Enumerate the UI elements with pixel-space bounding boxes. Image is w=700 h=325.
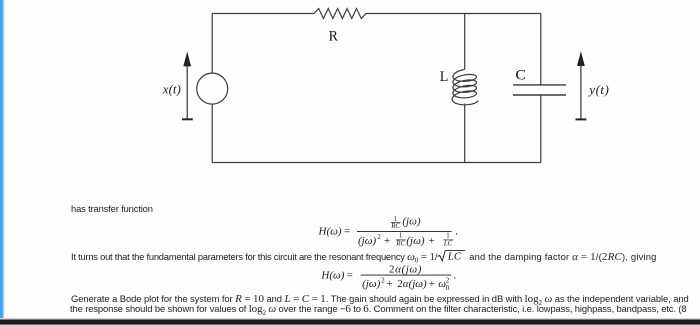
svg-text:(jω): (jω): [402, 216, 420, 228]
svg-text:=: =: [344, 225, 350, 237]
svg-text:.: .: [453, 270, 456, 282]
svg-text:+: +: [384, 235, 390, 247]
svg-text:RC: RC: [395, 241, 405, 248]
svg-text:2α(jω): 2α(jω): [389, 263, 422, 275]
svg-text:=: =: [347, 270, 353, 282]
svg-text:.: .: [455, 225, 458, 237]
svg-text:R: R: [329, 28, 339, 44]
svg-text:0: 0: [446, 285, 450, 292]
svg-text:+: +: [429, 278, 435, 290]
svg-text:2: 2: [381, 277, 385, 284]
svg-text:+: +: [386, 278, 392, 290]
svg-text:H(ω): H(ω): [318, 225, 342, 237]
svg-text:(jω): (jω): [358, 235, 376, 247]
svg-text:x(t): x(t): [162, 81, 181, 96]
svg-text:y(t): y(t): [587, 82, 609, 97]
svg-text:(jω): (jω): [406, 235, 424, 247]
svg-text:2α(jω): 2α(jω): [397, 278, 427, 290]
svg-text:1: 1: [399, 232, 402, 239]
svg-text:LC: LC: [443, 241, 453, 248]
svg-text:H(ω): H(ω): [320, 270, 344, 282]
svg-text:(jω): (jω): [362, 278, 380, 290]
svg-text:1: 1: [446, 232, 449, 239]
svg-text:+: +: [429, 235, 435, 247]
svg-text:2: 2: [377, 234, 381, 241]
svg-text:L: L: [440, 69, 449, 85]
svg-text:2: 2: [446, 278, 450, 285]
svg-text:1: 1: [394, 216, 397, 223]
svg-text:C: C: [515, 68, 526, 84]
svg-text:RC: RC: [390, 223, 400, 230]
